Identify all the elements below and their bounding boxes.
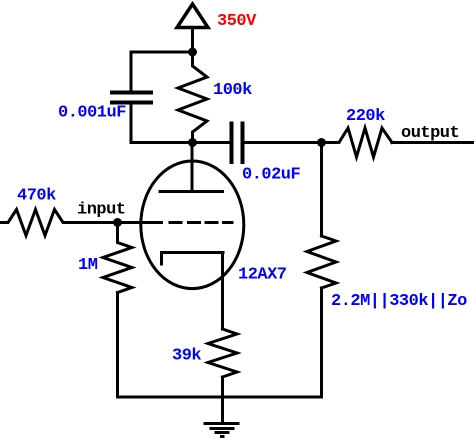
resistor 2.2M||330k||Zo (307, 236, 336, 288)
resistor 39k (208, 329, 237, 377)
wire: 350V triangle to node A (191, 28, 194, 53)
resistor 470k with input wire (0, 210, 118, 236)
wire: node A left to bypass cap top (131, 52, 193, 90)
capacitor 0.001uF (112, 93, 151, 103)
wire: 1M bottom to ground rail (116, 293, 119, 398)
svg-text:output: output (401, 124, 459, 143)
tube plate (160, 190, 223, 193)
wire: cathode down to 39k (221, 253, 224, 330)
wire: coupling cap to node C (245, 141, 322, 144)
resistor 1M (103, 223, 132, 293)
node B junction dot (188, 138, 197, 147)
wire: 220k to output edge (392, 141, 474, 144)
svg-text:1M: 1M (78, 256, 98, 275)
svg-text:12AX7: 12AX7 (238, 266, 287, 285)
tube grid (dashed) (170, 221, 232, 224)
wire: node C down to load resistor (320, 143, 323, 237)
svg-text:39k: 39k (172, 347, 201, 366)
wire: node D to tube grid (118, 221, 162, 224)
svg-text:2.2M||330k||Zo: 2.2M||330k||Zo (331, 292, 467, 311)
tube plate lead (191, 143, 194, 192)
wire: node B to coupling cap (193, 141, 230, 144)
svg-text:220k: 220k (346, 107, 385, 126)
svg-text:100k: 100k (213, 81, 252, 100)
power supply 350V triangle (177, 4, 208, 28)
node D junction dot (113, 218, 122, 227)
node C junction dot (317, 138, 326, 147)
node A junction dot (188, 48, 197, 57)
tube cathode (162, 253, 224, 265)
capacitor 0.02uF (232, 124, 243, 163)
wire: bypass cap bottom to node B (131, 105, 193, 143)
svg-text:input: input (77, 201, 126, 220)
ground rail wire (118, 396, 322, 399)
ground (205, 424, 238, 437)
svg-text:470k: 470k (17, 187, 56, 206)
resistor 100k (178, 52, 207, 143)
wire: 39k through rail to ground symbol (221, 377, 224, 423)
wire: load resistor to ground rail (320, 288, 323, 397)
resistor 220k (322, 128, 393, 157)
tube 12AX7 envelope (141, 161, 244, 289)
svg-text:0.02uF: 0.02uF (242, 166, 301, 185)
svg-text:350V: 350V (217, 12, 257, 31)
svg-text:0.001uF: 0.001uF (58, 104, 126, 123)
